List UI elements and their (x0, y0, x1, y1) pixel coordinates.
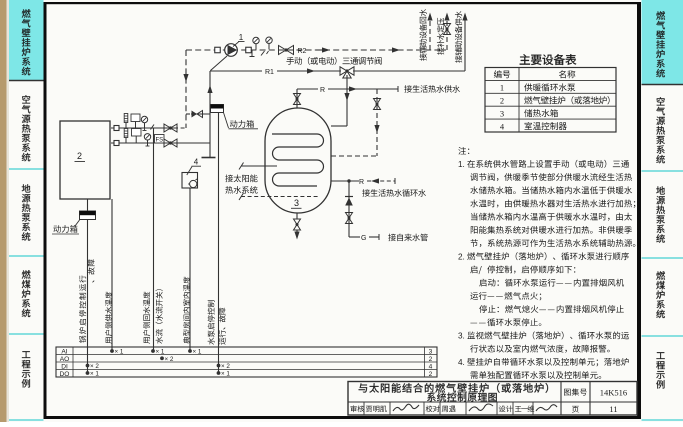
thermostat wire (189, 188, 191, 351)
svg-text:× 1: × 1 (115, 349, 124, 356)
right tab4 text 燃煤炉系统 (656, 271, 665, 318)
wire aux supply riser (464, 15, 466, 71)
AI dot room temp (188, 349, 192, 353)
svg-text:2.: 2. (458, 252, 465, 261)
left tab3 separator (9, 255, 44, 257)
arrow aux return (427, 13, 432, 21)
flow arrow down on R2 drop (183, 74, 188, 82)
DO dot pump (217, 371, 221, 375)
svg-text:× 1: × 1 (221, 371, 230, 378)
three-way valve 三通调节阀 (340, 67, 347, 75)
valve on return run (164, 124, 171, 132)
thermometer tick a (261, 51, 265, 56)
book spine tan strip (0, 0, 7, 422)
svg-text:2: 2 (429, 371, 433, 378)
label R1 (262, 65, 277, 74)
flow arrow on R2 mid (322, 47, 330, 52)
sensor tick on return (151, 125, 155, 130)
right tab2 text 空气源热泵系统 (656, 97, 665, 163)
svg-text:3: 3 (429, 349, 433, 356)
valve on DHW drop (374, 99, 381, 105)
svg-text:× 2: × 2 (90, 363, 99, 370)
right sidebar bottom line (642, 419, 683, 421)
svg-text:× 1: × 1 (90, 371, 99, 378)
right tab1 active cyan 燃气壁挂炉系统 (642, 0, 683, 84)
left tab1 text (22, 9, 31, 75)
label 手动（或电动）三通调节阀 (286, 57, 381, 65)
power box 1 (211, 105, 224, 113)
label R on DHW (318, 84, 328, 93)
svg-text:R: R (359, 179, 364, 186)
svg-text:1: 1 (239, 33, 244, 42)
right tab5 text 工程示例 (656, 352, 665, 388)
svg-text:3: 3 (294, 198, 299, 208)
wire R1 riser (209, 71, 211, 157)
label 接生活热水供水 (404, 85, 460, 93)
junction dot recirc (347, 179, 350, 182)
label 接生活热水循环水 (362, 189, 426, 197)
wire boiler return run (111, 127, 174, 129)
valve on makeup riser (444, 24, 451, 30)
boiler status wire (111, 199, 113, 351)
right tab4 separator (642, 335, 683, 337)
label 用户侧回水温度 (143, 292, 150, 344)
AI dot return temp (151, 349, 155, 353)
gauge tee on return (144, 128, 146, 131)
tank drain arrow (296, 230, 298, 235)
check valve on tap riser (345, 196, 353, 198)
power box 2 wire (87, 220, 89, 374)
svg-text:× 1: × 1 (156, 349, 165, 356)
valve on tap riser (346, 213, 353, 219)
flow arrow recirc left (371, 178, 379, 183)
wire DHW dashed drop (376, 89, 378, 156)
storage tank 3 shell (265, 108, 331, 213)
wire tap riser (348, 181, 350, 237)
pump leader diagonal (211, 56, 228, 71)
flow switch FS box (155, 135, 165, 144)
svg-text:4: 4 (194, 158, 199, 167)
valve on bypass (192, 111, 198, 118)
DI dot boiler (86, 364, 90, 368)
wire recirc dashed (367, 180, 395, 182)
svg-text:R: R (320, 87, 325, 94)
drain tee under pipe (251, 50, 253, 57)
arrow aux supply (462, 13, 467, 21)
svg-text:11: 11 (609, 404, 617, 414)
union on R2 left (215, 47, 221, 53)
svg-text:DO: DO (60, 371, 70, 378)
flow arrow DHW drop (374, 125, 379, 133)
union on R2 right (246, 47, 252, 53)
wire R1 horizontal (210, 70, 341, 72)
right tab2 separator (642, 170, 683, 172)
wire tap out (369, 236, 379, 238)
title line 2 (427, 393, 497, 402)
label 用户侧供水温度 (105, 292, 112, 344)
label 接辅助设备回水 (419, 9, 426, 61)
power box 2 label (53, 225, 77, 233)
equipment table title 主要设备表 (520, 54, 577, 65)
flow arrow R1 (307, 68, 315, 73)
atlas no label 图集号 (564, 388, 587, 395)
label 锅炉启停控制运行 (79, 276, 86, 343)
svg-text:× 1: × 1 (193, 349, 202, 356)
spine inner edge (7, 0, 10, 422)
tank drain valve (294, 219, 301, 225)
pump 1 circle (225, 44, 238, 57)
power box 1 wire (218, 113, 220, 374)
page label 页 (572, 406, 579, 413)
svg-text:AO: AO (60, 356, 70, 363)
svg-text:G: G (361, 235, 366, 242)
gauge tee on supply (147, 143, 149, 146)
R1 riser base bar (202, 157, 216, 159)
boiler bottom stub (87, 199, 89, 211)
equipment table grid (485, 68, 616, 133)
label 接自来水管 (388, 234, 427, 242)
right tab3 separator (642, 257, 683, 259)
AI dot supply temp (110, 349, 114, 353)
title block bottom row (363, 402, 365, 415)
pressure gauge a (253, 37, 259, 43)
gauge on return (141, 116, 147, 122)
wire DHW supply out (377, 88, 398, 90)
left tab5 text 工程示例 (22, 351, 31, 387)
svg-text:2: 2 (500, 96, 504, 106)
left tab1 active cyan 燃气壁挂炉系统 (9, 0, 44, 80)
left tab4 text 燃煤炉系统 (22, 270, 31, 317)
thermometer tick b (267, 51, 269, 54)
DI dot pump (217, 364, 221, 368)
flow arrow down three-way leg (344, 93, 349, 101)
union boiler supply (114, 141, 119, 146)
svg-text:4.: 4. (458, 358, 465, 367)
svg-text:4: 4 (429, 364, 433, 371)
wire into tank top side (331, 125, 347, 127)
DO dot boiler (86, 371, 90, 375)
wire bypass branch (186, 113, 191, 115)
label 水泵启停控制 (208, 300, 215, 344)
fitting on return (131, 114, 140, 122)
thermometer on supply (125, 138, 127, 144)
wire three-way down leg (346, 75, 348, 126)
valve on apex stub (294, 94, 301, 100)
flow arrow up R1 riser (207, 85, 212, 93)
left sidebar bottom line (9, 419, 44, 421)
frame right border (637, 2, 641, 419)
svg-text:× 2: × 2 (165, 356, 174, 363)
AO dot (160, 356, 164, 360)
label 运行、故障 b (219, 308, 226, 345)
tank coil (272, 134, 324, 186)
pressure gauge b (266, 37, 272, 43)
flow arrow DHW (349, 86, 357, 91)
title block frame (348, 382, 637, 416)
frame bottom border (44, 416, 642, 419)
svg-text:× 2: × 2 (221, 363, 230, 370)
wire after three-way (353, 70, 465, 72)
union boiler return (114, 126, 119, 131)
equipment header (494, 70, 510, 78)
wire tap horizontal (349, 236, 360, 238)
thermometer on return (125, 123, 127, 129)
label 接辅助设备供水 (455, 11, 462, 63)
svg-text:2: 2 (77, 151, 82, 161)
svg-text:1: 1 (500, 83, 504, 93)
wire aux return riser (429, 15, 431, 50)
wire makeup riser (446, 15, 448, 50)
label 接太阳能热水系统 (225, 175, 257, 183)
thermostat circle (190, 180, 197, 187)
power box 1 label (230, 120, 254, 128)
svg-text:FS: FS (155, 137, 163, 143)
gauge on supply (144, 134, 150, 140)
valve on supply run (164, 139, 171, 147)
valve on R2 (279, 46, 287, 55)
svg-text:3.: 3. (458, 332, 465, 341)
svg-text:1.: 1. (458, 160, 465, 169)
svg-text:R2: R2 (298, 48, 307, 55)
wire boiler supply run (111, 142, 210, 144)
wire tank apex stub (296, 89, 298, 108)
wire R2 dashed drop (185, 50, 187, 128)
label 、故障 a (88, 259, 95, 282)
svg-text:14K516: 14K516 (600, 388, 627, 398)
svg-text:2: 2 (429, 356, 433, 363)
solar return stub (241, 196, 320, 198)
wire R2 dashed return main (186, 49, 446, 51)
frame top border (44, 2, 642, 4)
frame left border (44, 2, 47, 419)
left tab3 text 地源热泵系统 (22, 184, 31, 240)
fitting on supply (132, 129, 142, 137)
room thermostat 4 box (182, 173, 198, 189)
power box 2 leader (75, 220, 80, 226)
left tab4 separator (9, 333, 44, 335)
svg-text:3: 3 (500, 109, 504, 119)
wire DHW drop into tank (331, 155, 377, 157)
svg-text:AI: AI (61, 349, 67, 356)
tank drain stub (296, 213, 298, 219)
supply temp sensor wire (153, 128, 155, 351)
title line 1 (359, 383, 548, 393)
flow arrow on R2 right (392, 47, 400, 52)
svg-text:R1: R1 (265, 69, 274, 76)
boiler unit 2 box (60, 121, 110, 199)
right tab1 text (656, 11, 665, 77)
left tab2 separator (9, 168, 44, 170)
label 典型房间内室内温度 (183, 277, 190, 344)
wire recirc solid (331, 180, 359, 182)
solar supply stub (241, 165, 277, 167)
io table frame (56, 347, 437, 377)
power box 1 leader (224, 113, 229, 129)
power box 2 (80, 211, 96, 220)
label 接补水定压 (437, 18, 444, 55)
arrow makeup (444, 13, 449, 21)
svg-text:DI: DI (61, 364, 68, 371)
label 水流（水流开关） (155, 289, 162, 343)
right tab3 text 地源热泵系统 (656, 186, 665, 242)
left tab2 text 空气源热泵系统 (22, 95, 31, 161)
wire DHW supply (297, 88, 377, 90)
notes text block (458, 147, 469, 155)
